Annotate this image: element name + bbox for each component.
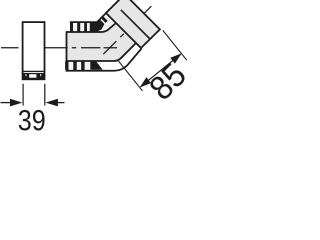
- elbow outline: pipe top edge, inner wall: [67, 23, 117, 32]
- collar inner ring line: [121, 10, 150, 39]
- ribs on diagonal shell: [102, 17, 107, 22]
- left ring seal black band: [23, 73, 45, 80]
- dimension 85: arrow line: [141, 54, 181, 87]
- node B : 45-deg branch centerline: [103, 6, 151, 54]
- collar (socket) at branch end: [106, 0, 160, 48]
- top shell band fill: [71, 10, 110, 23]
- dimension 85: arrowheads: [140, 77, 151, 87]
- node A : horizontal centerline: [1, 47, 117, 49]
- top shell band: horizontal line + diagonal: [70, 0, 120, 22]
- elbow shell band fills: [70, 22, 97, 32]
- left ring seal top line: [24, 70, 44, 72]
- top shell ribs: [70, 19, 104, 32]
- value label 39: [19, 110, 45, 131]
- bottom shell band: left wall + bottom line + curve: [66, 49, 142, 71]
- dimension 39: left arrow: [1, 102, 12, 104]
- bottom shell ribs: [66, 62, 103, 71]
- dimension 39: right arrow: [57, 102, 65, 104]
- elbow pipe left edge: [66, 31, 68, 61]
- dimension 85: extension line 1: [118, 61, 142, 91]
- elbow body fill: [67, 0, 160, 61]
- dimension 39: extension lines: [23, 84, 45, 106]
- wire: [1, 0, 187, 106]
- dimension 85: extension line 2: [163, 30, 187, 60]
- value label 85: [148, 61, 188, 101]
- elbow outline: pipe bottom edge and outer wall curve: [67, 43, 137, 61]
- left coupling ring outline: [23, 22, 45, 79]
